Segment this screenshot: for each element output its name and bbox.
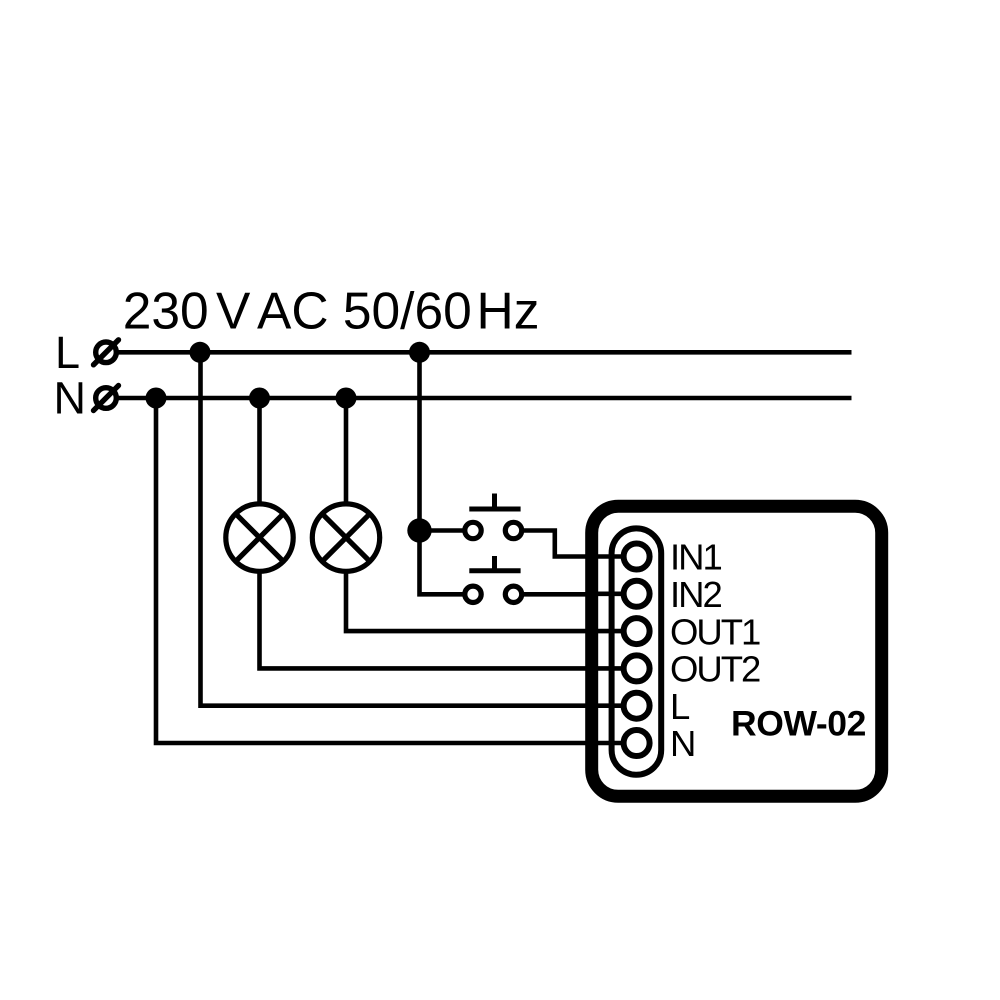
wire stub OUT1 [598,629,630,634]
svg-text:ROW-02: ROW-02 [731,704,866,744]
svg-text:L: L [55,327,80,378]
wire lamp E1 to module OUT2 [260,571,626,668]
svg-text:N: N [670,723,694,764]
svg-text:L: L [670,686,690,727]
svg-text:IN2: IN2 [670,574,722,615]
terminal OUT1 [624,618,650,644]
lamp E2 [312,504,379,571]
wire S1 to module IN1 [524,531,626,557]
module ROW-02 body [592,506,882,796]
node N-B (x=260) [249,388,270,409]
node switch branch [407,518,431,542]
wire N bus [116,396,852,401]
svg-text:OUT2: OUT2 [670,649,760,690]
terminal N [624,730,650,756]
terminal L [624,693,650,719]
svg-text:OUT1: OUT1 [670,611,760,652]
node L-A (x=200) [190,342,211,363]
node L-B (x=419) [409,342,430,363]
wire stub OUT2 [598,666,630,671]
wire L-A down to module L [201,352,626,705]
wire branch to S1 left contact [420,528,463,533]
wire L-B down to switches [420,352,463,594]
wire N-A down to module N [156,398,625,743]
node N-C (x=347) [336,388,357,409]
wire stub N [598,741,630,746]
terminal IN1 [624,544,650,570]
pushbutton S2 [465,556,522,603]
wire lamp E2 to module OUT1 [346,571,625,631]
terminal OUT2 [624,655,650,681]
wire N-C down to lamp E2 [344,398,349,504]
wire stub L [598,703,630,708]
svg-text:N: N [54,373,87,424]
wire L bus [116,350,852,355]
terminal IN2 [624,581,650,607]
pushbutton S1 [465,494,522,539]
wire S2 to module IN2 [524,592,626,597]
wire stub IN1 [598,554,630,559]
svg-text:IN1: IN1 [670,537,722,578]
lamp E1 [226,504,293,571]
terminal N [94,386,119,411]
wire stub IN2 [598,591,630,596]
node N-A (x=156) [146,388,167,409]
terminal strip pill [612,528,662,774]
wire N-B down to lamp E1 [257,398,262,504]
terminal L [94,340,119,365]
